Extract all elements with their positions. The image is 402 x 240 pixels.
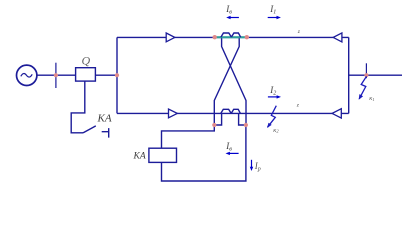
- svg-text:Iр: Iр: [254, 161, 261, 173]
- svg-text:z: z: [297, 29, 301, 35]
- svg-text:KA: KA: [133, 152, 146, 162]
- svg-text:Q: Q: [82, 54, 91, 68]
- svg-text:I2: I2: [269, 85, 276, 97]
- svg-text:к1: к1: [369, 95, 374, 102]
- svg-text:Iв: Iв: [225, 141, 232, 153]
- svg-text:z: z: [296, 103, 300, 109]
- svg-text:к2: к2: [273, 127, 279, 134]
- svg-text:KA: KA: [97, 113, 112, 125]
- svg-text:Iв: Iв: [225, 4, 232, 16]
- svg-text:I1: I1: [269, 4, 276, 16]
